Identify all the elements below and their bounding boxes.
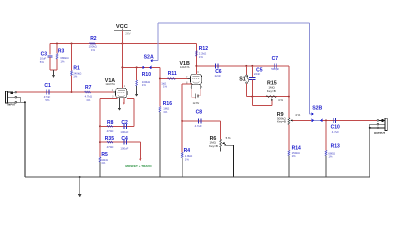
wire R13 top lead [325, 120, 327, 150]
node R16 tap [159, 78, 161, 80]
value R12 [199, 52, 206, 59]
wire row2 right drop [139, 142, 141, 161]
resistor R35 [107, 141, 113, 143]
label C6 [215, 69, 222, 75]
wire C3 top lead [49, 44, 51, 55]
label V1B [180, 61, 190, 69]
pin 1 V1A [124, 85, 126, 88]
wire C8 line [182, 120, 220, 122]
svg-text:R35: R35 [105, 136, 114, 142]
capacitor C3 [47, 55, 52, 70]
svg-text:C2: C2 [121, 120, 128, 126]
value R7 [85, 95, 92, 102]
pin 4 V1B [191, 86, 193, 89]
wire R4 top lead [181, 121, 183, 152]
label R15 [267, 81, 277, 87]
wire C3-R3 tie [50, 69, 57, 71]
svg-text:5 %: 5 % [226, 136, 231, 140]
label OUTPUT [374, 131, 385, 135]
svg-text:26V: 26V [125, 31, 130, 35]
wiper R6 [222, 142, 234, 177]
label C3 [41, 51, 48, 57]
svg-text:S2A: S2A [144, 54, 154, 60]
tube V1B [188, 74, 202, 84]
svg-text:1%: 1% [60, 59, 65, 63]
node row2 left [99, 141, 101, 143]
value C5 [254, 72, 261, 76]
wire output line [323, 119, 377, 121]
svg-text:C1: C1 [44, 83, 51, 89]
wire output sleeve [370, 124, 377, 128]
svg-text:100uF: 100uF [120, 130, 128, 134]
value C1 [44, 95, 51, 102]
heater V1B [192, 85, 200, 99]
node R1-input junction [71, 91, 73, 93]
wire row1 [100, 125, 134, 127]
power VCC symbol [114, 29, 131, 44]
wire S1 top lead [245, 66, 247, 75]
svg-text:100uF: 100uF [120, 146, 128, 150]
svg-text:1%: 1% [101, 161, 106, 165]
label R8 [107, 120, 114, 126]
wire tone right corner [288, 66, 290, 97]
resistor R8 [107, 125, 113, 127]
resistor R7 [85, 91, 91, 93]
wire input sleeve [17, 97, 21, 102]
resistor R11 [167, 78, 175, 80]
node R15 right [288, 96, 290, 98]
label S2B [312, 106, 322, 112]
svg-text:VCC: VCC [116, 24, 128, 30]
wire R1 top lead [71, 44, 73, 71]
node VCC junction [121, 43, 123, 45]
wire C5 bottom lead [251, 80, 253, 97]
label R12 [199, 46, 208, 52]
svg-text:4.7uF: 4.7uF [195, 124, 202, 128]
node V1A plate-line67 junction [121, 66, 123, 68]
svg-text:22nF: 22nF [254, 72, 261, 76]
pin 6 V1B [197, 71, 199, 74]
capacitor C6 [216, 63, 218, 68]
svg-text:Key=B: Key=B [277, 120, 286, 124]
svg-text:1%: 1% [91, 48, 96, 52]
svg-text:1%: 1% [328, 155, 333, 159]
value C10 [332, 130, 339, 134]
svg-text:Key=B: Key=B [267, 89, 276, 93]
wire R1 bottom lead [71, 76, 73, 92]
wire V1A plate lead [121, 44, 123, 89]
wire R15 line [246, 96, 289, 98]
svg-text:Key=B: Key=B [209, 144, 218, 148]
value R4 [185, 154, 192, 161]
label V1A [105, 78, 115, 86]
label R11 [168, 71, 177, 77]
ground under R10 [135, 91, 138, 97]
node R13 tap [325, 119, 327, 121]
svg-text:R7: R7 [85, 85, 92, 91]
value R14 [292, 151, 300, 158]
svg-text:5%: 5% [40, 60, 45, 64]
wire input ground [17, 101, 25, 103]
label C10 [331, 124, 340, 130]
svg-text:R13: R13 [331, 143, 340, 149]
tube V1A [113, 88, 127, 98]
svg-text:C7: C7 [272, 56, 279, 62]
capacitor C10 [333, 118, 335, 123]
switch S1 [246, 75, 249, 84]
node plate-C6 junction [195, 65, 197, 67]
wire cathode left bar [99, 99, 101, 158]
svg-text:S2B: S2B [312, 106, 322, 112]
svg-text:1%: 1% [292, 154, 297, 158]
wire S2 link [158, 22, 309, 24]
wire R10 top lead [136, 67, 138, 80]
wire row1 right bar [127, 99, 134, 127]
svg-text:1%: 1% [163, 85, 168, 89]
resistor R14 [288, 150, 290, 155]
label R4 [184, 148, 191, 154]
svg-text:OUTPUT: OUTPUT [374, 131, 385, 135]
node R10 tap [136, 66, 138, 68]
label R3 [58, 49, 65, 55]
capacitor C5 [249, 78, 255, 80]
value C3 [40, 56, 47, 63]
label R10 [142, 72, 151, 78]
label R15 percent [278, 98, 283, 102]
svg-text:INPUT: INPUT [8, 103, 16, 107]
label VCC value 26V [125, 31, 130, 35]
label R13 [331, 143, 340, 149]
label C1 [44, 83, 51, 89]
label INPUT [8, 103, 16, 107]
pin 2 V1A [112, 89, 114, 92]
svg-text:22nF: 22nF [215, 74, 222, 78]
resistor R3 [56, 54, 58, 70]
capacitor C7 [274, 63, 276, 68]
node input ground junction [24, 101, 26, 103]
wire R16 bottom lead [159, 112, 161, 177]
resistor R16 [159, 107, 161, 112]
wire V1B plate lead [195, 44, 197, 75]
wire R16 top lead [159, 79, 161, 107]
ground V1A heater [118, 98, 121, 111]
label C8 [196, 109, 203, 115]
label R9 percent [295, 113, 300, 117]
wire - top supply rail y43.5 [50, 43, 196, 45]
svg-text:4.7uF: 4.7uF [332, 130, 339, 134]
svg-text:1%: 1% [185, 157, 190, 161]
value R2 [89, 45, 97, 52]
switch S2A arrows [143, 66, 152, 70]
svg-text:470Ω: 470Ω [107, 145, 114, 149]
wire S1 bottom lead [245, 84, 247, 97]
label R6 [210, 136, 217, 142]
value R3 [60, 56, 68, 63]
resistor R1 [71, 71, 73, 76]
wire ground bus [25, 176, 370, 178]
resistor R13 [325, 150, 327, 155]
resistor R4 [181, 152, 183, 157]
connector J1 input jack [5, 91, 16, 103]
svg-text:5%: 5% [45, 98, 50, 102]
value R16 [163, 107, 169, 114]
wire grid line [160, 78, 188, 80]
value C2 [120, 130, 128, 134]
svg-text:C4: C4 [121, 136, 128, 142]
value C8 [195, 124, 202, 128]
pin 7 V1B [186, 76, 188, 79]
wire input ground drop [24, 102, 26, 177]
pin 3 V1A [112, 96, 114, 99]
svg-text:1%: 1% [73, 75, 78, 79]
label R5 [101, 152, 108, 158]
wire R14 bottom lead [288, 156, 290, 177]
wiper R9 [290, 119, 311, 121]
capacitor C8 [199, 118, 201, 123]
pin V1A cathode stub [123, 98, 125, 105]
wire R15-R9 lead [288, 97, 290, 118]
label R14 [292, 145, 301, 151]
svg-text:R8: R8 [107, 120, 114, 126]
connector J2 output jack [377, 118, 387, 130]
resistor R2 [90, 43, 96, 45]
value R13 [328, 151, 335, 158]
label R1 [73, 65, 80, 71]
wire S2A drop [153, 23, 159, 61]
node C5 bottom [251, 96, 253, 98]
label R7 [85, 85, 92, 91]
wire R5 bottom lead [99, 162, 101, 177]
wire C8 corner [220, 121, 222, 139]
value heater 12.6V [193, 102, 200, 105]
value R1 [73, 71, 81, 78]
wire R13 bottom lead [325, 156, 327, 177]
svg-text:500pF: 500pF [271, 67, 279, 71]
potentiometer R15 [266, 96, 276, 98]
value R11 [161, 81, 167, 88]
label C7 [272, 56, 279, 62]
value R5 [101, 158, 108, 165]
wire plate line [122, 66, 159, 68]
wire output ground stub [370, 127, 377, 129]
label R35 [105, 136, 114, 142]
label R16 [163, 101, 172, 107]
node output ground junction [369, 127, 371, 129]
pin 8 V1B [186, 81, 188, 84]
wire R9 bottom lead [288, 125, 290, 151]
wire output ground drop [369, 128, 371, 177]
label VCC [116, 24, 128, 30]
wire V1B cathode [182, 84, 191, 121]
node C5 top [251, 65, 253, 67]
label R2 [90, 36, 97, 42]
label S2A [144, 54, 154, 60]
svg-text:R10: R10 [142, 72, 151, 78]
label C2 [121, 120, 128, 126]
wire R4 bottom lead [181, 158, 183, 177]
value R8 [107, 129, 114, 133]
resistor R10 [136, 80, 138, 86]
switch S2B arrows [311, 119, 322, 123]
wire corner to grid line [159, 67, 161, 78]
svg-text:4 %: 4 % [278, 98, 283, 102]
ground main [78, 177, 82, 197]
node row1 left [99, 125, 101, 127]
node S1 top [245, 65, 247, 67]
svg-text:S1: S1 [239, 77, 246, 83]
value C7 [271, 67, 279, 71]
label R9 [277, 112, 284, 118]
potentiometer R9 [288, 118, 290, 125]
label R6 percent [226, 136, 231, 140]
wire C5 top lead [251, 66, 253, 77]
switch S2B lever arrow [312, 112, 314, 116]
switch S2A lever arrow [150, 59, 152, 62]
capacitor C1 [47, 89, 49, 94]
node bus ground junction [79, 176, 81, 178]
label C5 [256, 67, 263, 73]
wire R3 top lead [56, 44, 58, 54]
wire row2 [100, 141, 140, 143]
svg-text:R2: R2 [90, 36, 97, 42]
svg-text:1%: 1% [86, 98, 91, 102]
svg-text:R11: R11 [168, 71, 177, 77]
svg-text:C8: C8 [196, 109, 203, 115]
resistor R5 [99, 157, 101, 162]
svg-text:MOSFET + TRAFO: MOSFET + TRAFO [125, 164, 152, 168]
resistor R12 [196, 51, 198, 57]
node rail-R3 junction [56, 43, 58, 45]
capacitor C4 [124, 140, 126, 145]
ground under C3/R3 [52, 70, 55, 78]
value C6 [215, 74, 222, 78]
svg-text:12AX7A: 12AX7A [105, 82, 115, 86]
value R6 [209, 141, 218, 148]
value R9 [277, 117, 287, 124]
pin 5 V1B [201, 86, 203, 89]
wire R10 bottom lead [136, 86, 138, 91]
label C4 [121, 136, 128, 142]
node rail-R1 junction [71, 43, 73, 45]
svg-text:R3: R3 [58, 49, 65, 55]
wire tone line [196, 65, 289, 67]
label net MOSFET+TRAFO [125, 164, 152, 168]
wire V1A cathode left [100, 98, 118, 100]
value C4 [120, 146, 128, 150]
svg-text:1%: 1% [163, 110, 168, 114]
value R10 [142, 80, 150, 87]
svg-text:12AX7A: 12AX7A [180, 65, 190, 69]
value R35 [107, 145, 114, 149]
potentiometer R6 [220, 139, 222, 151]
label S1 [239, 77, 246, 83]
wire S2B drop [309, 23, 311, 114]
svg-text:12.6V: 12.6V [193, 102, 200, 105]
capacitor C2 [124, 124, 126, 129]
svg-text:1%: 1% [199, 55, 204, 59]
wire input line [17, 91, 114, 93]
wiper R15 [252, 97, 273, 106]
value R15 [267, 86, 276, 93]
node C8 tap [181, 120, 183, 122]
svg-text:1%: 1% [142, 83, 147, 87]
svg-text:4 %: 4 % [295, 113, 300, 117]
svg-text:470Ω: 470Ω [107, 129, 114, 133]
